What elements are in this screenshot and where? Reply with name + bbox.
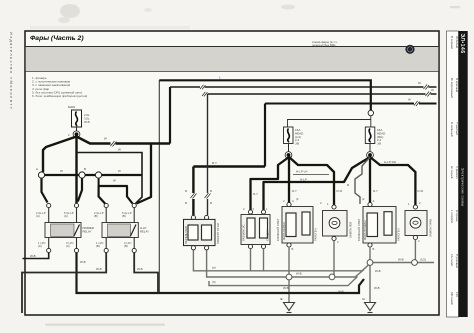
svg-text:RELAY: RELAY xyxy=(83,229,92,233)
svg-text:R: R xyxy=(210,189,212,193)
svg-text:(B): (B) xyxy=(96,244,100,248)
svg-text:H-LP: H-LP xyxy=(300,178,307,182)
svg-text:ПЕРЕДН ЛЕВ: ПЕРЕДН ЛЕВ xyxy=(184,226,188,244)
svg-text:R-Y: R-Y xyxy=(212,161,217,165)
svg-text:G зеленый: G зеленый xyxy=(450,122,454,137)
svg-text:R-W: R-W xyxy=(418,189,424,193)
svg-text:(1/2): (1/2) xyxy=(420,258,426,262)
svg-text:V фиолет: V фиолет xyxy=(455,166,459,179)
svg-text:W: W xyxy=(118,148,121,152)
svg-text:B черный: B черный xyxy=(450,36,454,49)
svg-text:(2: (2 xyxy=(362,197,365,201)
svg-text:IH: IH xyxy=(362,297,365,301)
svg-text:J/B: J/B xyxy=(377,141,381,145)
svg-text:R: R xyxy=(185,189,187,193)
svg-text:СОЕДИН: СОЕДИН xyxy=(266,229,270,241)
svg-text:БЛИЖНИЙ СВЕТ: БЛИЖНИЙ СВЕТ xyxy=(357,218,361,241)
svg-text:(A): (A) xyxy=(38,244,42,248)
svg-text:O оранж: O оранж xyxy=(455,210,459,221)
svg-text:Электрические схемы: Электрические схемы xyxy=(460,168,464,207)
svg-text:SB синий: SB синий xyxy=(450,292,454,305)
svg-text:146: 146 xyxy=(455,292,459,297)
svg-text:(B): (B) xyxy=(124,244,128,248)
svg-text:W-B: W-B xyxy=(137,267,143,271)
svg-text:B: B xyxy=(373,247,375,251)
svg-text:ГАЛОГЕН: ГАЛОГЕН xyxy=(397,228,401,241)
svg-text:R-Y: R-Y xyxy=(373,189,378,193)
svg-text:ЛАМПА ПРАВ: ЛАМПА ПРАВ xyxy=(429,219,433,237)
svg-text:Фары (Часть 2): Фары (Часть 2) xyxy=(30,35,84,42)
svg-text:W-B: W-B xyxy=(374,286,380,290)
svg-text:БЛИЖНИЙ СВЕТ: БЛИЖНИЙ СВЕТ xyxy=(276,218,280,241)
svg-text:A: A xyxy=(292,199,294,203)
svg-text:R-Y: R-Y xyxy=(253,192,258,196)
svg-text:ЛАМПА ЛЕВ: ЛАМПА ЛЕВ xyxy=(349,222,353,238)
svg-text:(а): (а) xyxy=(212,266,216,270)
svg-text:W-B: W-B xyxy=(80,260,86,264)
svg-text:W: W xyxy=(418,81,421,85)
svg-text:W: W xyxy=(60,169,63,173)
svg-text:W-B: W-B xyxy=(84,120,90,124)
svg-text:A: A xyxy=(36,167,38,171)
svg-text:J/B: J/B xyxy=(295,141,299,145)
svg-text:B: B xyxy=(84,167,86,171)
svg-text:W: W xyxy=(113,179,116,183)
svg-text:(B): (B) xyxy=(122,214,126,218)
svg-text:H-LP RH: H-LP RH xyxy=(384,160,396,164)
svg-text:R-W: R-W xyxy=(337,189,343,193)
svg-text:(B): (B) xyxy=(94,214,98,218)
svg-text:W-B: W-B xyxy=(375,269,381,273)
svg-text:B: B xyxy=(292,247,294,251)
svg-text:ФАРА ПРАВАЯ: ФАРА ПРАВАЯ xyxy=(363,221,367,240)
svg-text:(A): (A) xyxy=(66,244,70,248)
svg-text:ГАБАРИТ ОГНИ: ГАБАРИТ ОГНИ xyxy=(216,223,220,244)
svg-text:W-B: W-B xyxy=(283,286,289,290)
svg-text:(A): (A) xyxy=(64,214,68,218)
svg-text:(A): (A) xyxy=(36,214,40,218)
svg-text:R: R xyxy=(185,201,187,205)
svg-text:ГАЛОГЕН: ГАЛОГЕН xyxy=(314,228,318,241)
svg-text:LG салат: LG салат xyxy=(450,254,454,267)
svg-text:W: W xyxy=(104,137,107,141)
svg-text:РАЗЪЕМ J/C: РАЗЪЕМ J/C xyxy=(242,224,246,241)
svg-text:W-B: W-B xyxy=(296,272,302,276)
svg-text:Y желтый: Y желтый xyxy=(455,122,459,135)
svg-text:W: W xyxy=(431,88,434,92)
svg-text:галоген) без DRL: галоген) без DRL xyxy=(312,43,336,47)
svg-text:MAIN: MAIN xyxy=(68,105,75,109)
svg-text:Издательство «Монолит»: Издательство «Монолит» xyxy=(9,32,14,110)
svg-text:W: W xyxy=(408,98,411,102)
svg-text:IE: IE xyxy=(280,297,283,301)
svg-text:(б): (б) xyxy=(212,280,216,284)
svg-text:W: W xyxy=(118,169,121,173)
svg-text:W-B: W-B xyxy=(96,267,102,271)
svg-text:A: A xyxy=(373,199,375,203)
svg-text:H-LP LH: H-LP LH xyxy=(296,170,307,174)
svg-text:6. блок: комбинация приборов (: 6. блок: комбинация приборов (щиток) xyxy=(32,94,87,98)
svg-text:R красный: R красный xyxy=(455,78,459,92)
svg-text:W-B: W-B xyxy=(398,258,404,262)
svg-text:(2: (2 xyxy=(296,197,299,201)
svg-text:Br коричневый: Br коричневый xyxy=(450,78,454,98)
svg-text:ФАРА ЛЕВАЯ: ФАРА ЛЕВАЯ xyxy=(282,222,286,240)
svg-text:P розовый: P розовый xyxy=(455,254,459,268)
svg-text:W белый: W белый xyxy=(455,36,459,48)
svg-text:W-B: W-B xyxy=(30,254,36,258)
svg-text:RELAY: RELAY xyxy=(140,229,149,233)
svg-text:R: R xyxy=(210,201,212,205)
svg-text:Gr серый: Gr серый xyxy=(450,166,454,179)
svg-text:L голубой: L голубой xyxy=(450,210,454,223)
svg-text:R-Y: R-Y xyxy=(292,189,297,193)
